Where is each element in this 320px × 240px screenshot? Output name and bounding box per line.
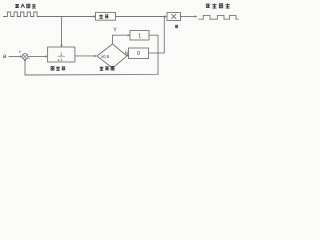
accumulator box — [48, 47, 75, 62]
wire: branch down to accumulator — [61, 17, 63, 46]
wire: accumulator to comparator — [75, 55, 95, 57]
adder circle — [22, 54, 28, 60]
svg-text:z-1: z-1 — [58, 58, 63, 62]
wire: box 0 output — [149, 52, 165, 54]
box 0 — [129, 48, 149, 59]
svg-text:N: N — [125, 50, 128, 55]
wire: delay to multiplier — [116, 16, 165, 18]
label 比较器 — [100, 66, 115, 70]
label: output pulses 输出脉冲 — [206, 4, 230, 8]
label 累加器 — [51, 66, 65, 70]
multiplier box U x — [167, 13, 181, 21]
gate label below multiplier — [175, 25, 177, 28]
wire: diamond top to box 1 — [113, 35, 129, 44]
wire: junction up to multiplier — [163, 17, 165, 54]
wire: multiplier to output — [181, 16, 196, 18]
comparator diamond — [97, 44, 127, 68]
feedback wire bottom rail — [25, 53, 158, 75]
svg-text:1: 1 — [138, 33, 141, 39]
svg-text:0: 0 — [137, 51, 140, 57]
wire: diamond right to box 0 — [126, 54, 129, 57]
delay box 延迟 — [96, 12, 116, 20]
box 1 — [130, 31, 149, 41]
input pulse waveform — [3, 12, 44, 17]
wire: box 1 output to junction — [149, 35, 158, 53]
svg-text:−: − — [28, 57, 31, 62]
svg-text:+: + — [19, 50, 22, 55]
output pulse waveform — [199, 15, 239, 19]
wire: waveform to delay box — [44, 16, 94, 18]
wire: a to adder — [9, 56, 21, 58]
wire: adder to accumulator — [28, 55, 46, 57]
svg-text:≥0.5: ≥0.5 — [101, 54, 110, 59]
label: input pulses 输入脉冲 — [15, 4, 36, 8]
